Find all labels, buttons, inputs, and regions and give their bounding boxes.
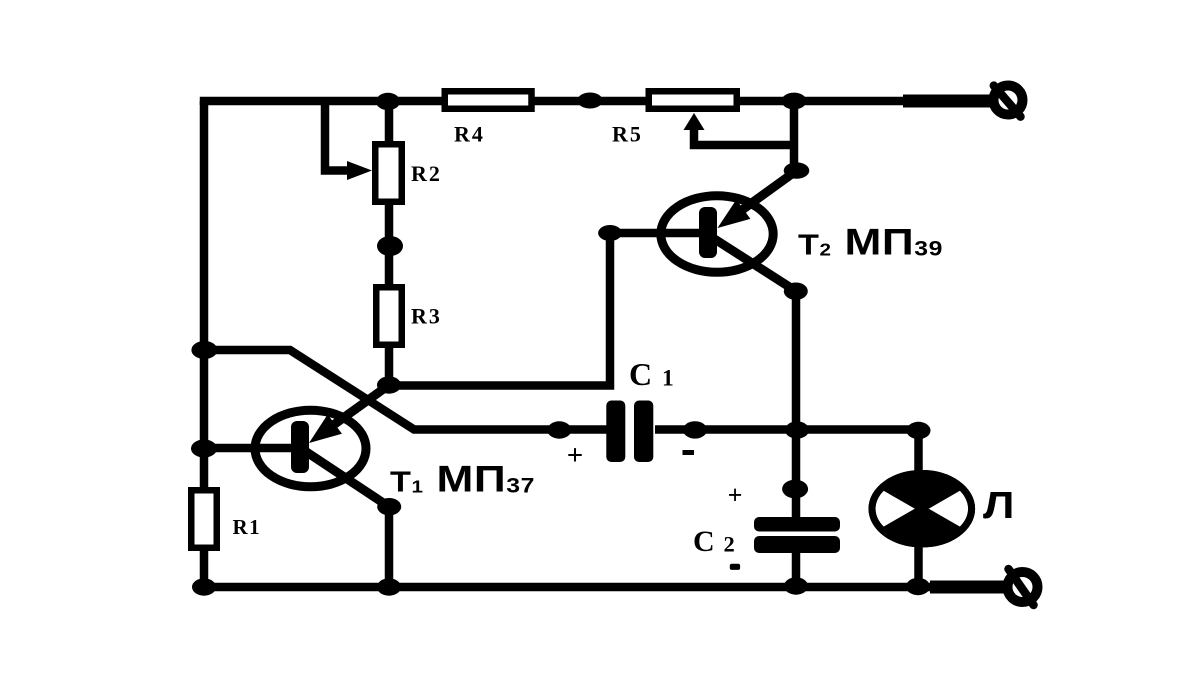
arrow R2 wiper	[347, 161, 372, 180]
wire R3 bottom stem	[385, 345, 394, 385]
junction node R1 bottom rail	[192, 578, 216, 595]
junction node above C2	[782, 480, 808, 499]
wire T2 base lead	[610, 229, 708, 238]
junction node T2 collector top	[784, 162, 810, 178]
thick lead to top terminal	[903, 95, 990, 108]
transistor T2 base bar	[699, 207, 717, 258]
wire T1 emitter diagonal	[305, 451, 389, 507]
junction node T2 base	[598, 225, 622, 241]
svg-text:2: 2	[724, 532, 735, 557]
wire rail to T2 collector	[790, 101, 799, 171]
wire lamp bottom stem	[914, 545, 923, 587]
junction node lamp bottom rail	[906, 578, 930, 595]
wire T1 base lead	[204, 444, 300, 453]
transistor T2 circle	[661, 196, 773, 273]
thick lead to bottom terminal	[930, 581, 1004, 594]
capacitor C1 plate left	[606, 401, 625, 463]
junction node T1 emitter	[377, 498, 401, 515]
junction node at R2 top	[376, 93, 400, 110]
wire top rail	[204, 101, 903, 105]
wire C2 bottom stem	[792, 552, 801, 587]
svg-text:+: +	[567, 440, 584, 472]
junction node T2 emitter bottom	[784, 283, 808, 300]
junction node R3 bottom	[377, 376, 401, 393]
wire C1 right to lamp corner	[655, 430, 919, 473]
capacitor C1 plate right	[634, 401, 653, 463]
junction node between R2 and R3	[377, 236, 403, 256]
svg-text:R2: R2	[411, 161, 442, 186]
junction node between R4 and R5	[577, 93, 602, 109]
label T2	[798, 221, 943, 263]
capacitor C2 plate bottom	[754, 536, 840, 553]
wire T1 collector diagonal	[322, 385, 389, 433]
junction node top rail at R5 wiper	[782, 93, 807, 110]
svg-text:R3: R3	[411, 304, 442, 329]
junction node lamp top	[907, 422, 931, 439]
junction node C1 net at C2 vertical	[785, 421, 809, 438]
svg-text:С: С	[629, 356, 652, 392]
junction node C2 at bottom rail	[784, 577, 808, 594]
wire R2 to R3	[385, 202, 394, 287]
svg-text:R5: R5	[612, 122, 643, 147]
wire R2 wiper branch	[325, 101, 352, 171]
resistor R2	[375, 144, 402, 202]
junction node T1 emitter at rail	[377, 578, 401, 595]
resistor R1	[191, 490, 217, 548]
wire R2 top stem	[385, 101, 394, 144]
wire crossing net: left rail to C1	[204, 350, 608, 430]
arrow T1 collector	[309, 414, 342, 443]
label C2 minus	[730, 564, 740, 570]
svg-text:R1: R1	[233, 515, 262, 539]
wire base net R3 to T2 base	[389, 233, 610, 386]
arrow T2 emitter	[718, 200, 751, 229]
junction node before C1	[547, 421, 571, 438]
terminal top right	[994, 86, 1023, 117]
lamp L body	[802, 444, 1042, 574]
wire bottom rail	[204, 583, 935, 587]
capacitor C2 plate top	[754, 517, 840, 532]
arrow R5 wiper	[684, 113, 705, 130]
wire T2 collector diagonal	[733, 171, 797, 217]
junction node left rail T1 base	[191, 440, 217, 458]
resistor R4	[445, 91, 532, 109]
wire T1 emitter vertical	[385, 507, 394, 587]
wire T2 emitter vertical to C2	[792, 291, 801, 518]
svg-text:R4: R4	[454, 122, 485, 147]
svg-text:Л: Л	[983, 483, 1014, 526]
resistor R3	[376, 287, 402, 345]
label lamp	[983, 483, 1014, 526]
junction node left rail crossing wire	[191, 341, 217, 359]
svg-text:1: 1	[662, 366, 674, 392]
svg-text:+: +	[728, 481, 743, 510]
transistor T1 circle	[255, 410, 366, 487]
resistor R5	[649, 91, 737, 109]
wire R5 wiper	[694, 127, 794, 145]
wire R1 bottom to bottom rail	[200, 548, 209, 587]
label T1	[390, 458, 535, 500]
transistor T1 base bar	[291, 421, 309, 473]
wire T2 emitter diagonal	[713, 238, 796, 291]
wire left rail	[200, 101, 209, 490]
svg-text:С: С	[693, 525, 715, 558]
label C1 minus	[683, 450, 695, 455]
junction node after C1	[683, 421, 707, 438]
terminal bottom right	[1008, 569, 1038, 605]
